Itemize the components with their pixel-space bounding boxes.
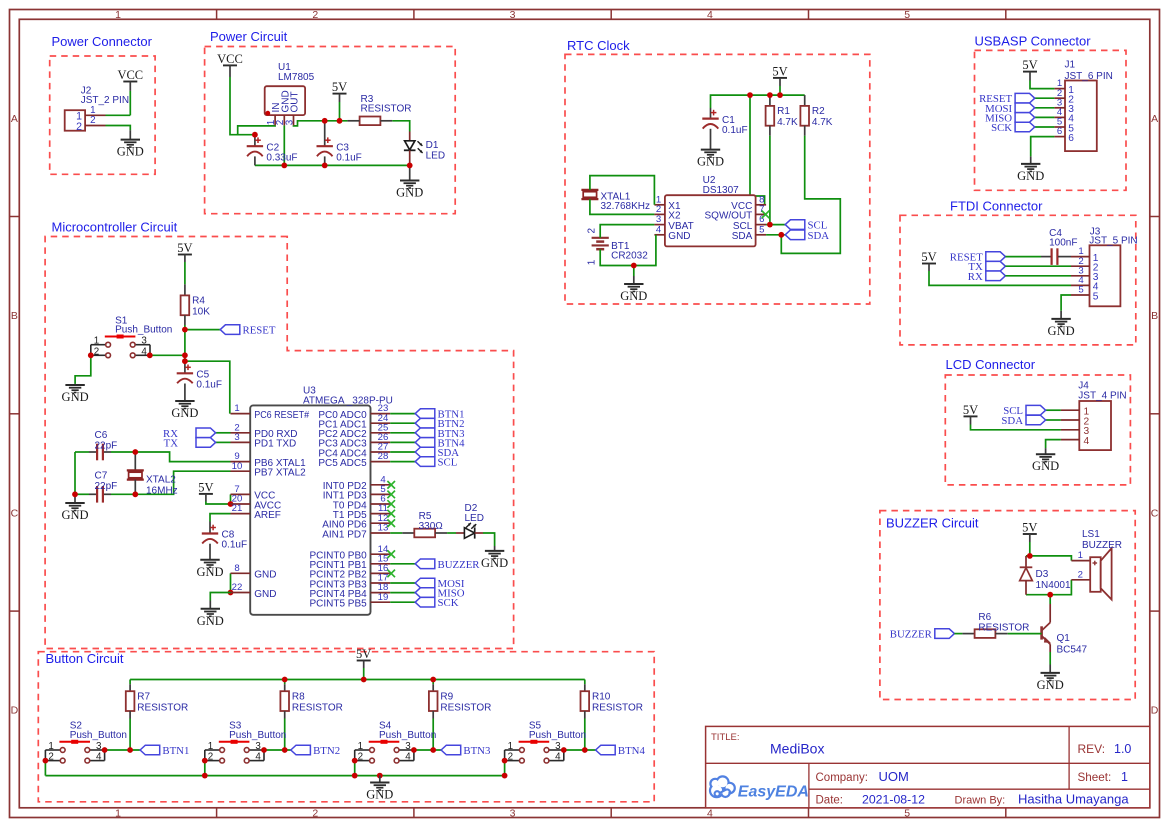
svg-text:Push_Button: Push_Button: [379, 730, 436, 741]
svg-text:D3: D3: [1036, 569, 1049, 580]
svg-text:D: D: [1151, 705, 1159, 717]
svg-text:6: 6: [1068, 133, 1074, 144]
svg-text:5V: 5V: [963, 403, 978, 417]
svg-text:BC547: BC547: [1057, 645, 1088, 656]
svg-text:GND: GND: [254, 570, 276, 581]
svg-text:OUT: OUT: [290, 91, 301, 112]
svg-text:0.1uF: 0.1uF: [196, 380, 222, 391]
svg-text:21: 21: [232, 503, 243, 514]
svg-text:GND: GND: [61, 508, 88, 522]
svg-text:4.7K: 4.7K: [777, 117, 798, 128]
svg-text:28: 28: [378, 451, 389, 462]
svg-text:RESISTOR: RESISTOR: [592, 702, 643, 713]
svg-text:REV:: REV:: [1078, 742, 1106, 756]
svg-text:RTC Clock: RTC Clock: [567, 38, 630, 53]
svg-text:Push_Button: Push_Button: [70, 730, 127, 741]
svg-text:0.33uF: 0.33uF: [266, 152, 297, 163]
svg-text:SCK: SCK: [438, 597, 459, 609]
svg-text:2: 2: [48, 752, 53, 763]
svg-text:19: 19: [378, 592, 389, 603]
svg-text:1: 1: [1121, 770, 1128, 784]
svg-text:LM7805: LM7805: [278, 72, 315, 83]
svg-text:BUZZER: BUZZER: [1082, 540, 1122, 551]
svg-text:BTN3: BTN3: [463, 745, 490, 757]
svg-text:RX: RX: [968, 271, 983, 283]
svg-text:R2: R2: [812, 106, 825, 117]
svg-text:B: B: [1151, 310, 1158, 322]
svg-text:2: 2: [312, 9, 318, 21]
svg-text:VCC: VCC: [217, 52, 243, 66]
svg-text:2: 2: [1078, 569, 1083, 580]
svg-text:GND: GND: [697, 155, 724, 169]
svg-text:GND: GND: [196, 565, 223, 579]
svg-text:GND: GND: [1032, 459, 1059, 473]
svg-text:SDA: SDA: [1001, 415, 1023, 427]
svg-text:16MHz: 16MHz: [146, 486, 178, 497]
svg-text:TITLE:: TITLE:: [711, 732, 740, 743]
svg-text:2: 2: [76, 121, 82, 133]
svg-text:R7: R7: [137, 692, 150, 703]
svg-text:4: 4: [656, 224, 662, 235]
svg-text:0.1uF: 0.1uF: [722, 125, 748, 136]
svg-text:2: 2: [312, 807, 318, 819]
svg-text:RESET: RESET: [243, 325, 276, 337]
svg-text:1: 1: [115, 9, 121, 21]
svg-text:SDA: SDA: [732, 231, 753, 242]
svg-text:4.7K: 4.7K: [812, 117, 833, 128]
svg-text:A: A: [11, 113, 18, 125]
svg-text:R4: R4: [192, 296, 205, 307]
svg-text:C: C: [1151, 507, 1159, 519]
svg-text:R8: R8: [292, 692, 305, 703]
svg-text:2: 2: [587, 227, 598, 233]
svg-text:GND: GND: [1048, 324, 1075, 338]
svg-text:0.1uF: 0.1uF: [336, 152, 362, 163]
svg-text:5: 5: [1078, 285, 1083, 296]
svg-text:CR2032: CR2032: [611, 251, 648, 262]
svg-text:2: 2: [94, 346, 99, 357]
svg-text:4: 4: [1084, 436, 1090, 447]
svg-text:22pF: 22pF: [95, 441, 118, 452]
svg-text:6: 6: [1057, 126, 1062, 137]
svg-text:BUZZER: BUZZER: [890, 629, 933, 641]
svg-text:PB7 XTAL2: PB7 XTAL2: [254, 468, 306, 479]
svg-text:5V: 5V: [198, 480, 213, 494]
svg-text:4: 4: [707, 9, 713, 21]
svg-text:PCINT5 PB5: PCINT5 PB5: [309, 599, 367, 610]
svg-text:BUZZER Circuit: BUZZER Circuit: [886, 516, 979, 531]
svg-text:R6: R6: [978, 612, 991, 623]
svg-text:5V: 5V: [356, 647, 371, 661]
svg-text:Sheet:: Sheet:: [1078, 771, 1112, 784]
svg-text:R9: R9: [440, 692, 453, 703]
svg-text:GND: GND: [481, 556, 508, 570]
svg-text:SCL: SCL: [438, 457, 458, 469]
svg-text:1: 1: [508, 741, 513, 752]
svg-text:22: 22: [232, 582, 243, 593]
svg-text:Power Circuit: Power Circuit: [210, 29, 288, 44]
svg-text:C6: C6: [95, 430, 108, 441]
svg-text:GND: GND: [62, 390, 89, 404]
svg-text:3: 3: [234, 432, 239, 443]
svg-text:3: 3: [284, 119, 295, 125]
svg-text:1: 1: [358, 741, 363, 752]
svg-text:2: 2: [90, 115, 95, 126]
svg-text:RESISTOR: RESISTOR: [978, 623, 1029, 634]
svg-text:330Ω: 330Ω: [419, 521, 444, 532]
svg-text:LED: LED: [465, 513, 484, 524]
svg-text:C7: C7: [95, 470, 108, 481]
svg-text:PC6 RESET#: PC6 RESET#: [254, 410, 309, 421]
svg-text:A: A: [1151, 113, 1158, 125]
svg-text:5: 5: [1093, 291, 1099, 302]
svg-text:5V: 5V: [1022, 58, 1037, 72]
svg-text:4: 4: [141, 346, 147, 357]
svg-text:2: 2: [208, 752, 213, 763]
svg-text:Hasitha Umayanga: Hasitha Umayanga: [1018, 791, 1129, 806]
svg-text:1N4001: 1N4001: [1036, 580, 1071, 591]
svg-text:3: 3: [96, 741, 102, 752]
svg-text:5V: 5V: [177, 241, 192, 255]
svg-text:1: 1: [115, 807, 121, 819]
svg-text:Push_Button: Push_Button: [229, 730, 286, 741]
svg-text:GND: GND: [396, 186, 423, 200]
svg-text:8: 8: [234, 563, 239, 574]
svg-text:GND: GND: [1037, 678, 1064, 692]
svg-text:RESISTOR: RESISTOR: [292, 702, 343, 713]
svg-text:3: 3: [255, 741, 261, 752]
svg-text:Date:: Date:: [816, 794, 844, 806]
svg-text:5V: 5V: [332, 80, 347, 94]
svg-text:2: 2: [508, 752, 513, 763]
svg-text:D: D: [11, 705, 19, 717]
svg-text:4: 4: [96, 752, 102, 763]
svg-text:GND: GND: [366, 788, 393, 802]
svg-text:Microcontroller Circuit: Microcontroller Circuit: [52, 220, 178, 235]
svg-text:GND: GND: [620, 289, 647, 303]
svg-text:1: 1: [234, 403, 239, 414]
svg-text:DS1307: DS1307: [703, 185, 740, 196]
svg-text:5: 5: [904, 807, 910, 819]
svg-text:BTN4: BTN4: [618, 745, 646, 757]
svg-text:1: 1: [48, 741, 53, 752]
svg-text:5V: 5V: [1022, 521, 1037, 535]
svg-text:22pF: 22pF: [95, 481, 118, 492]
svg-text:B: B: [11, 310, 18, 322]
svg-text:1: 1: [208, 741, 213, 752]
svg-text:RESISTOR: RESISTOR: [440, 702, 491, 713]
svg-text:LCD Connector: LCD Connector: [946, 357, 1036, 372]
svg-text:BTN1: BTN1: [162, 745, 189, 757]
svg-text:4: 4: [555, 752, 561, 763]
svg-text:Power Connector: Power Connector: [52, 34, 153, 49]
svg-text:AIN1 PD7: AIN1 PD7: [322, 529, 367, 540]
svg-text:JST_4 PIN: JST_4 PIN: [1078, 390, 1126, 401]
svg-text:1: 1: [587, 259, 598, 265]
svg-text:2: 2: [358, 752, 363, 763]
svg-text:5: 5: [759, 224, 764, 235]
svg-text:3: 3: [405, 741, 411, 752]
svg-text:MediBox: MediBox: [770, 741, 824, 757]
svg-text:10: 10: [232, 461, 243, 472]
svg-text:GND: GND: [171, 406, 198, 420]
svg-text:5V: 5V: [772, 64, 787, 78]
svg-text:GND: GND: [254, 589, 276, 600]
svg-text:RESISTOR: RESISTOR: [137, 702, 188, 713]
svg-text:Push_Button: Push_Button: [529, 730, 586, 741]
svg-text:RESISTOR: RESISTOR: [361, 104, 412, 115]
svg-text:R10: R10: [592, 692, 611, 703]
svg-text:3: 3: [510, 807, 516, 819]
svg-text:GND: GND: [668, 231, 690, 242]
svg-text:VCC: VCC: [117, 68, 143, 82]
svg-text:PD1 TXD: PD1 TXD: [254, 439, 296, 450]
svg-text:4: 4: [255, 752, 261, 763]
svg-text:BUZZER: BUZZER: [438, 559, 481, 571]
svg-text:4: 4: [405, 752, 411, 763]
svg-text:32.768KHz: 32.768KHz: [601, 201, 650, 212]
svg-text:XTAL2: XTAL2: [146, 475, 176, 486]
svg-text:Company:: Company:: [816, 772, 868, 784]
svg-text:LED: LED: [426, 150, 445, 161]
svg-text:JST_5 PIN: JST_5 PIN: [1089, 236, 1137, 247]
svg-text:USBASP Connector: USBASP Connector: [975, 34, 1092, 49]
svg-text:3: 3: [510, 9, 516, 21]
svg-text:Drawn By:: Drawn By:: [955, 794, 1006, 806]
svg-text:FTDI Connector: FTDI Connector: [950, 199, 1043, 214]
svg-text:TX: TX: [164, 438, 179, 450]
svg-text:10K: 10K: [192, 307, 210, 318]
svg-text:13: 13: [378, 523, 389, 534]
svg-text:4: 4: [707, 807, 713, 819]
svg-text:SCK: SCK: [991, 122, 1012, 134]
svg-text:5V: 5V: [921, 250, 936, 264]
svg-text:GND: GND: [1017, 169, 1044, 183]
svg-text:Push_Button: Push_Button: [115, 325, 172, 336]
svg-text:1.0: 1.0: [1114, 742, 1131, 756]
svg-text:J1: J1: [1065, 59, 1076, 70]
svg-text:GND: GND: [117, 145, 144, 159]
svg-text:1: 1: [1078, 550, 1083, 561]
svg-text:D1: D1: [426, 140, 439, 151]
svg-text:PC5 ADC5: PC5 ADC5: [318, 458, 367, 469]
svg-text:3: 3: [555, 741, 561, 752]
svg-text:1: 1: [94, 336, 99, 347]
svg-text:GND: GND: [197, 614, 224, 628]
svg-text:R5: R5: [419, 511, 432, 522]
svg-text:EasyEDA: EasyEDA: [738, 784, 809, 801]
svg-text:UOM: UOM: [879, 769, 909, 784]
svg-text:JST_2 PIN: JST_2 PIN: [81, 95, 129, 106]
svg-text:SDA: SDA: [808, 230, 830, 242]
svg-text:3: 3: [141, 336, 147, 347]
svg-text:2021-08-12: 2021-08-12: [862, 792, 925, 806]
svg-text:C: C: [11, 507, 19, 519]
svg-text:5: 5: [904, 9, 910, 21]
svg-text:Button Circuit: Button Circuit: [46, 651, 124, 666]
svg-text:R1: R1: [777, 106, 790, 117]
svg-text:100nF: 100nF: [1049, 238, 1077, 249]
svg-text:Q1: Q1: [1057, 633, 1071, 644]
svg-text:AREF: AREF: [254, 510, 281, 521]
svg-text:JST_6 PIN: JST_6 PIN: [1065, 71, 1113, 82]
svg-text:0.1uF: 0.1uF: [222, 540, 248, 551]
svg-text:BTN2: BTN2: [313, 745, 340, 757]
svg-text:LS1: LS1: [1082, 529, 1100, 540]
